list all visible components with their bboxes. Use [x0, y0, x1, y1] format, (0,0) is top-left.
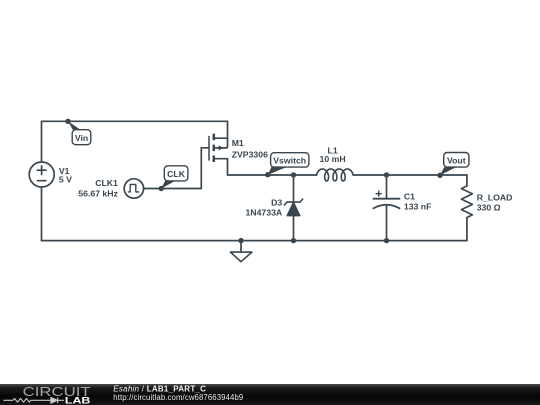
wire left rail upper	[41, 121, 43, 162]
svg-text:R_LOAD: R_LOAD	[477, 192, 513, 202]
wire R_LOAD bottom lead	[466, 218, 468, 241]
svg-text:1N4733A: 1N4733A	[245, 208, 282, 218]
node junction C1 bottom	[384, 238, 389, 243]
transistor M1 PMOS	[209, 134, 228, 162]
svg-text:10 mH: 10 mH	[320, 154, 346, 164]
wire top rail Vin	[42, 120, 228, 122]
voltage source V1	[29, 162, 54, 187]
wire C1 top lead	[386, 175, 388, 199]
node Vswitch flag	[265, 153, 309, 178]
node junction ground	[238, 238, 243, 243]
CircuitLab logo wire-resistor-diode glyph	[3, 397, 64, 403]
svg-text:5 V: 5 V	[59, 175, 72, 185]
label R_LOAD value	[477, 192, 513, 212]
svg-text:Vin: Vin	[75, 133, 88, 143]
node Vout flag	[437, 153, 469, 179]
label CLK1 value	[78, 178, 118, 198]
resistor R_LOAD	[461, 186, 472, 218]
diode D3 zener	[284, 199, 302, 216]
ground	[230, 252, 252, 262]
svg-text:330 Ω: 330 Ω	[477, 203, 501, 213]
label M1 value	[232, 138, 268, 159]
wire R_LOAD top lead	[466, 175, 468, 186]
capacitor C1	[373, 199, 399, 209]
svg-text:CLK: CLK	[167, 169, 186, 179]
node junction D3 bottom	[291, 238, 296, 243]
svg-text:LAB: LAB	[65, 395, 91, 405]
wire D3 anode lead	[293, 216, 295, 241]
label C1 value	[404, 192, 432, 212]
wire CLK1 to M1 gate	[144, 148, 209, 189]
label L1 value	[320, 145, 346, 164]
clock source CLK1	[124, 179, 143, 198]
wire ground stub	[240, 241, 242, 253]
svg-text:ZVP3306: ZVP3306	[232, 149, 268, 159]
wire M1 source lead	[227, 121, 229, 138]
capacitor C1 plus sign	[376, 191, 382, 197]
wire M1 drain lead to Vswitch node	[228, 159, 317, 175]
svg-text:M1: M1	[232, 138, 244, 148]
svg-text:D3: D3	[271, 198, 282, 208]
svg-text:Vswitch: Vswitch	[273, 156, 306, 166]
wire bottom ground rail	[42, 240, 467, 242]
node junction C1 top	[384, 172, 389, 177]
svg-text:C1: C1	[404, 192, 415, 202]
label V1 value	[59, 166, 72, 185]
svg-text:CLK1: CLK1	[95, 178, 118, 188]
wire C1 bottom lead	[386, 205, 388, 241]
label D3 value	[245, 198, 282, 218]
node CLK flag	[159, 166, 188, 191]
svg-text:http://circuitlab.com/cw687663: http://circuitlab.com/cw687663944b9	[113, 393, 243, 402]
svg-text:133 nF: 133 nF	[404, 202, 432, 212]
node Vin flag	[65, 119, 90, 145]
inductor L1	[317, 169, 354, 181]
svg-text:56.67 kHz: 56.67 kHz	[78, 188, 118, 198]
node junction D3 top	[291, 172, 296, 177]
wire D3 cathode lead	[293, 175, 295, 202]
wire L1 to R_LOAD	[353, 174, 467, 176]
svg-text:Vout: Vout	[447, 156, 466, 166]
transistor M1 arrow	[219, 145, 224, 150]
wire left rail lower	[41, 187, 43, 241]
